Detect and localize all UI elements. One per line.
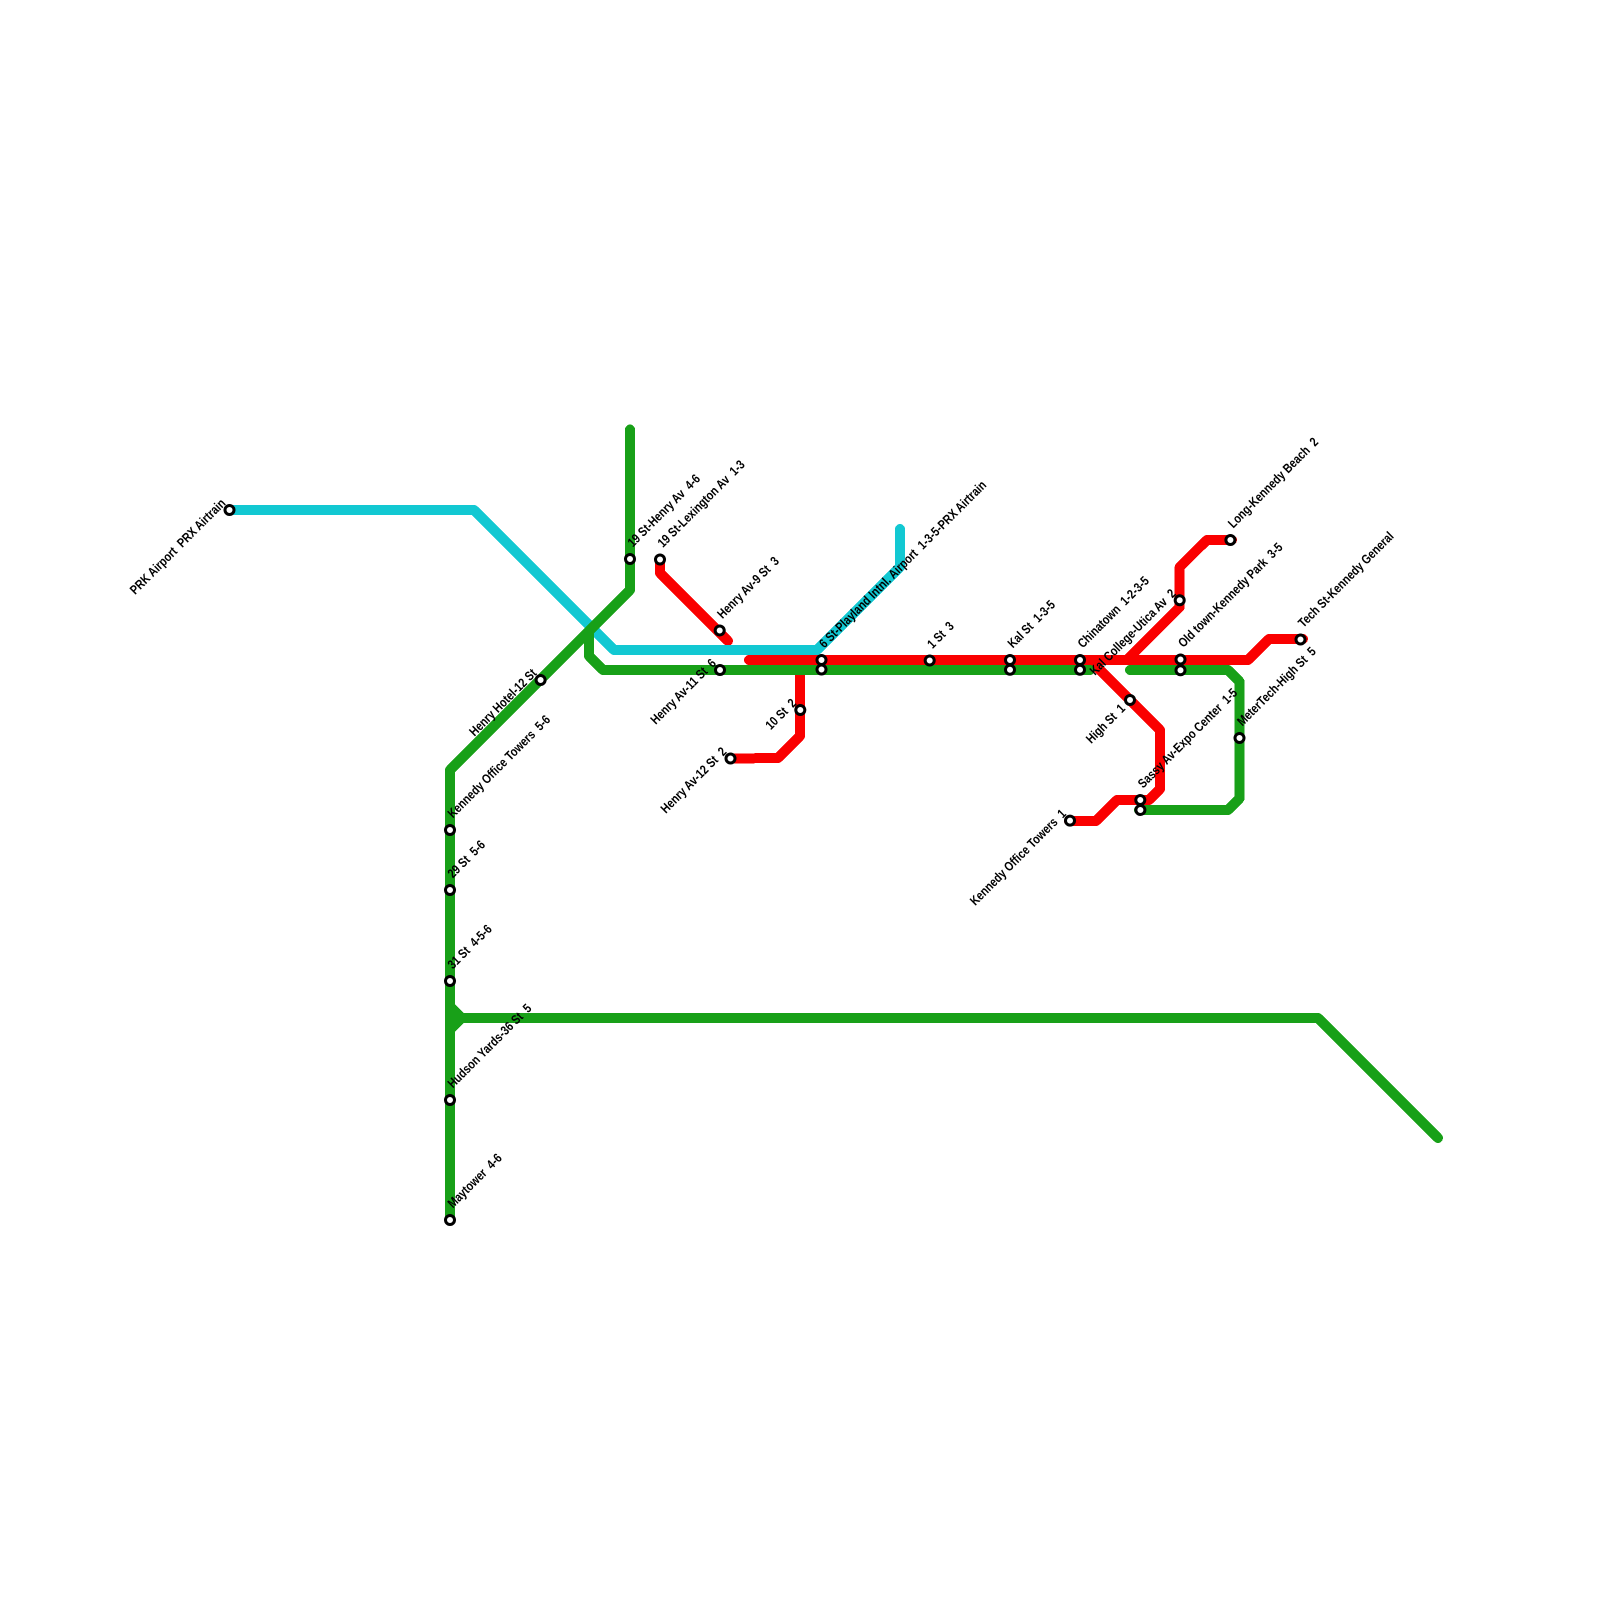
red line: High St branch to Kennedy Office Towers (route 1) (1069, 660, 1160, 821)
green line: southern branch junction upper bevel (450, 1007, 462, 1019)
station circle: Kennedy Office Towers 5-6 (446, 826, 455, 835)
station circle: Chinatown red (1076, 656, 1085, 665)
station circle: Maytower (446, 1216, 455, 1225)
red line: 19 St-Lexington Av branch (route 3) (660, 560, 728, 641)
station circle: Old town-Kennedy Park green (1176, 666, 1185, 675)
station circle: Henry Av-12 St (726, 754, 735, 763)
station circle: 1 St (925, 656, 934, 665)
station circle: 31 St (446, 977, 455, 986)
station circle: 19 St-Henry Av (626, 555, 635, 564)
red line: main horizontal (routes 1-3) with Tech St tail (749, 639, 1303, 660)
cyan line: PRX Airtrain PRK Airport - Playland Intnl Airport (230, 510, 900, 650)
red line: branch to Long-Kennedy Beach (route 2) (1127, 540, 1232, 660)
station circle: Tech St-Kennedy General (1296, 635, 1305, 644)
station circle: High St (1126, 696, 1135, 705)
green line: main trunk 19 St-Henry Av to Maytower (450, 430, 630, 1218)
station circle: Long-Kennedy Beach (1226, 536, 1235, 545)
station circle: Chinatown green (1076, 665, 1085, 674)
station circle: Henry Av-9 St (715, 626, 724, 635)
green line: southern branch junction lower bevel (450, 1018, 462, 1030)
station circle: PRK Airport (225, 506, 234, 515)
green line: branch from trunk to eastern horizontal (route 6) (589, 631, 1090, 670)
station circle: Old town-Kennedy Park red (1176, 655, 1185, 664)
red line: 10 St branch to Henry Av-12 St (route 2) (732, 660, 800, 759)
station circle: 6 St-Playland green (817, 665, 826, 674)
station circle: Kennedy Office Towers 1 (1066, 816, 1075, 825)
station circle: 10 St (796, 706, 805, 715)
station circle: 6 St-Playland red (817, 656, 826, 665)
station circle: Kal St green (1006, 665, 1015, 674)
station circle: 19 St-Lexington Av (656, 555, 665, 564)
station circle: Hudson Yards-36 St (446, 1096, 455, 1105)
green line: eastern loop via MeterTech-High St to Sassy Av-Expo Center (1130, 670, 1240, 810)
station circle: Kal St red (1006, 656, 1015, 665)
station circle: MeterTech-High St (1235, 734, 1244, 743)
station circle: Henry Av-11 St (716, 666, 725, 675)
station circle: Henry Hotel-12 St (536, 676, 545, 685)
station circle: Sassy Av-Expo Center green (1136, 806, 1145, 815)
station circle: Kal College-Utica Av (1175, 596, 1184, 605)
station circle: 29 St (446, 886, 455, 895)
green line: long southern horizontal with SE diagonal tail (462, 1018, 1439, 1138)
station circle: Sassy Av-Expo Center red (1136, 796, 1145, 805)
